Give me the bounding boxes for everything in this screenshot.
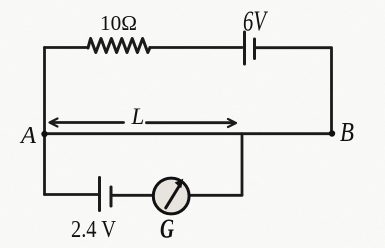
svg-text:A: A [19,122,37,149]
svg-text:B: B [340,117,354,147]
svg-text:6V: 6V [243,7,268,38]
svg-text:10Ω: 10Ω [100,11,137,35]
svg-text:2.4 V: 2.4 V [71,216,116,243]
svg-text:L: L [131,104,145,129]
svg-text:G: G [160,214,174,244]
